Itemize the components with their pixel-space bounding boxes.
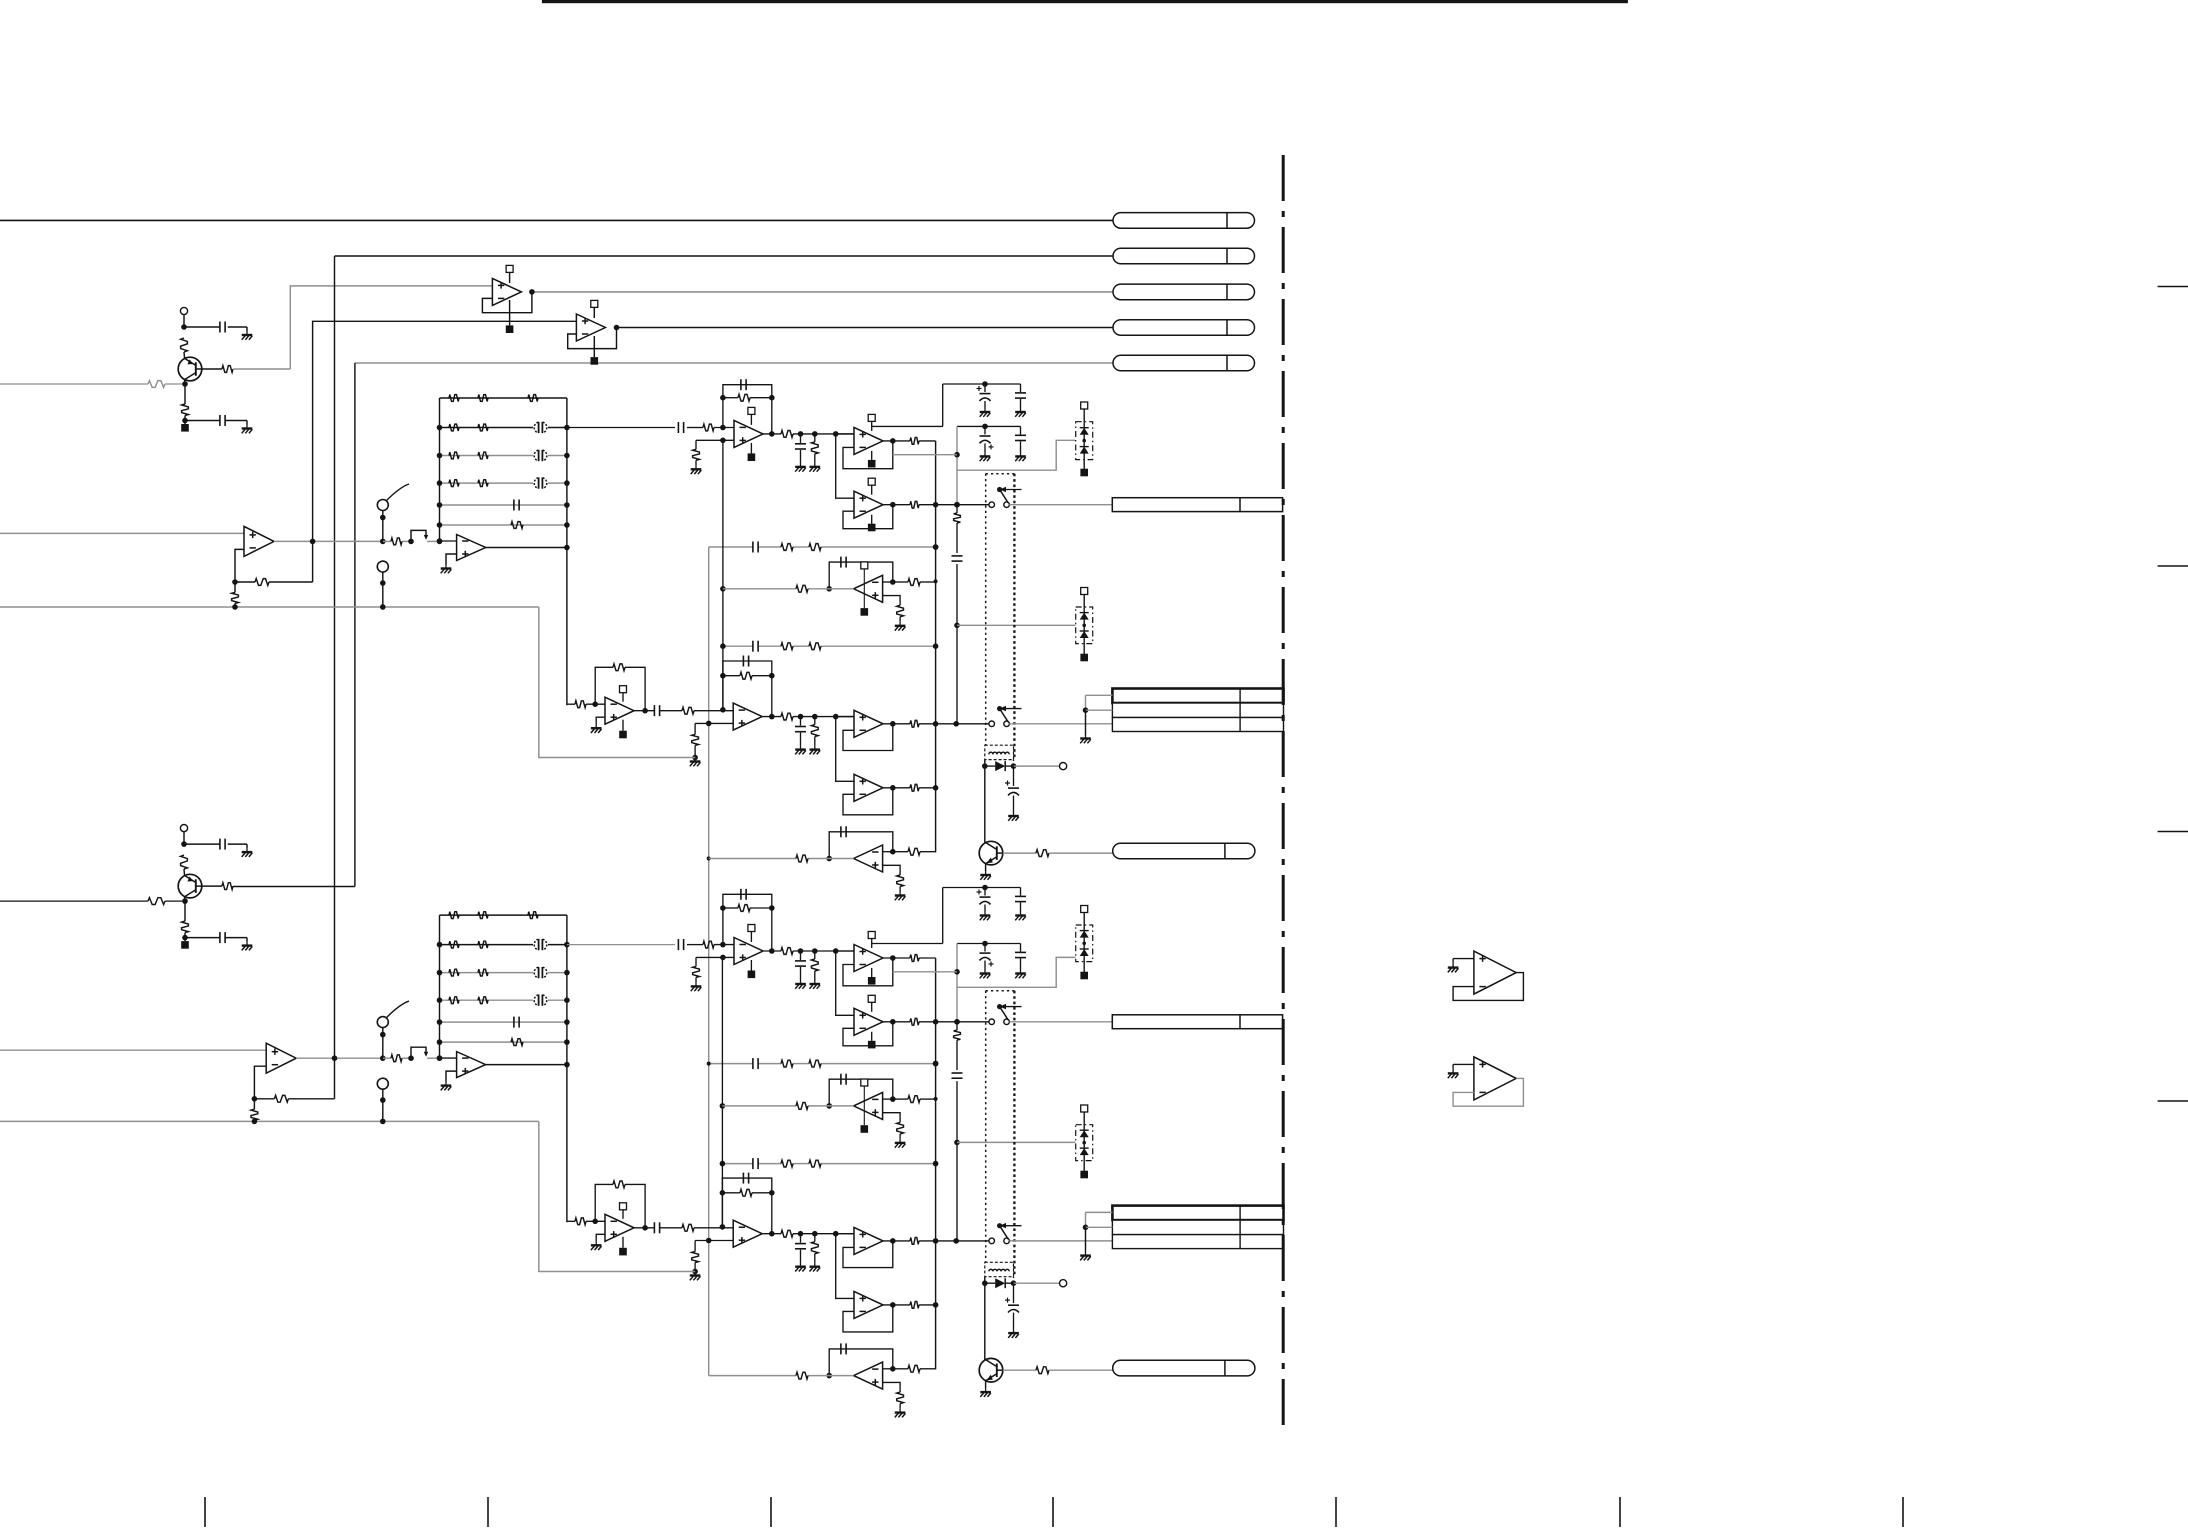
power square op-amp B bbox=[593, 336, 595, 357]
fold tick 3 bbox=[770, 1497, 772, 1527]
node pack feed ch1 bbox=[954, 623, 960, 629]
op-amp U7a bbox=[605, 697, 634, 724]
resistor T2 emitter bbox=[182, 921, 189, 933]
terminal ring T2 bbox=[180, 825, 187, 832]
wire U9 plus feed bbox=[836, 717, 854, 782]
wire U9' to vertical bbox=[919, 1304, 936, 1306]
node rail bottom ch2 bbox=[437, 1055, 443, 1061]
node x936 y1064 bbox=[933, 1061, 939, 1067]
capacitor feedback U7b' bbox=[742, 1173, 744, 1184]
filter bank ch1 right rail bbox=[566, 398, 568, 705]
node fb L opamp3 bbox=[720, 395, 726, 401]
filter ch1 row5 wire bbox=[440, 504, 567, 506]
pad above U6 bbox=[861, 562, 868, 569]
node filter ch2 L3 bbox=[437, 970, 443, 976]
node S2a on line bbox=[380, 1055, 386, 1061]
node chain21 c bbox=[833, 714, 839, 720]
node switch2 v1 bbox=[933, 1019, 939, 1025]
resistor mix B ch2 1 bbox=[781, 1160, 793, 1167]
resistor feedback opamp3' bbox=[738, 905, 750, 912]
ground T1 upper bbox=[246, 331, 248, 335]
ground T2 lower bbox=[246, 942, 248, 946]
resistor feedback U7b bbox=[740, 672, 752, 679]
wire T1 collector out bbox=[202, 368, 222, 370]
resistor filter ch2 r3a bbox=[449, 969, 459, 976]
power square U3' bbox=[750, 960, 752, 971]
wire U6 output bbox=[808, 588, 854, 590]
connector pill P5 bbox=[1113, 355, 1255, 371]
wire T2 upper cap lead bbox=[184, 843, 220, 845]
ground stub U7a' bbox=[596, 1234, 605, 1241]
fold tick 5 bbox=[1335, 1497, 1337, 1527]
wire U7a' out bbox=[634, 1227, 654, 1229]
wire preamp2 output bbox=[296, 1057, 383, 1059]
resistor U7b' plus gnd bbox=[692, 1252, 699, 1263]
diode relay ch2 bbox=[995, 1278, 1005, 1288]
op-amp preamp2 bbox=[266, 1043, 296, 1073]
pad above D1 bbox=[1081, 402, 1088, 409]
wire T2 base lead bbox=[165, 900, 185, 902]
op-amp U7b' bbox=[733, 1220, 762, 1247]
wire vertical x957 ch1 upper bbox=[956, 426, 958, 504]
node x936 y788 bbox=[933, 785, 939, 791]
node x723 ch1 y646 bbox=[720, 643, 726, 649]
terminal ring relay ch2 bbox=[1060, 1280, 1067, 1287]
node U6' minus bbox=[890, 1096, 896, 1102]
registration mark 1 bbox=[2158, 286, 2188, 288]
wire vertical x936 ch2 bbox=[935, 958, 937, 1370]
resistor U6b output bbox=[796, 855, 808, 862]
connector jack J2a bbox=[1112, 1015, 1282, 1029]
resistor U6' output bbox=[796, 1103, 808, 1110]
node stage1 minus ch2 bbox=[720, 942, 726, 948]
wire vertical x723 ch1 bbox=[722, 440, 724, 710]
wire U7a out bbox=[634, 710, 654, 712]
node x709 at ch2 mix line bbox=[707, 1062, 711, 1066]
wire T1 lower cap to gnd bbox=[225, 420, 247, 422]
node U5 out bbox=[890, 502, 896, 508]
ground U7b' bbox=[694, 1272, 696, 1276]
resistor filter ch1 r4b bbox=[478, 480, 488, 487]
wire gray bus elbow ch2 bbox=[539, 1121, 695, 1271]
pad above D3 bbox=[1081, 906, 1088, 913]
wire coil right down ch1 bbox=[1013, 760, 1015, 761]
wire preamp1 output bbox=[274, 540, 383, 542]
node mix A ch1 bbox=[933, 544, 939, 550]
power square U5 bbox=[871, 515, 873, 524]
resistor U9 out bbox=[910, 784, 919, 791]
capacitor elec relay ch2 bbox=[1008, 1304, 1019, 1306]
node U6b outjoin bbox=[826, 856, 832, 862]
wire cap group2 ch1 bbox=[957, 425, 1021, 427]
op-amp preamp1 bbox=[244, 526, 274, 556]
capacitor g1b ch1 bbox=[1020, 384, 1022, 392]
wire U5 to switch bbox=[919, 504, 989, 506]
wire lower bus ch2 bbox=[0, 1120, 539, 1122]
dash-dot boundary line bbox=[1282, 155, 1285, 1432]
terminal ring relay ch1 bbox=[1060, 763, 1067, 770]
wire U8 plus feed bbox=[836, 716, 854, 718]
wire U4 plus feed bbox=[836, 433, 854, 435]
filter bank ch1 left rail bbox=[439, 398, 441, 541]
ground U6b bbox=[899, 887, 901, 892]
node op-amp B output bbox=[614, 325, 620, 331]
wire bus line 4 bbox=[617, 327, 1114, 329]
resistor T2 collector bias bbox=[181, 855, 188, 869]
wire Q2r emitter gnd bbox=[985, 1381, 987, 1388]
resistor filter ch1 r4a bbox=[449, 480, 459, 487]
node switch22 v2 bbox=[953, 1238, 959, 1244]
diode pack D4 bbox=[1076, 1125, 1093, 1161]
op-amp U9 bbox=[854, 774, 883, 801]
terminal ring T1 bbox=[180, 307, 187, 314]
trimmer cap filter ch2 row2 bbox=[533, 938, 548, 951]
connector block ch2 row B bbox=[1112, 1220, 1283, 1235]
pad above U3 bbox=[748, 407, 755, 414]
wire vertical bus5 to Q2 collector bbox=[354, 363, 356, 887]
node fb R opamp3' bbox=[769, 905, 775, 911]
wire U8' plus feed bbox=[836, 1233, 854, 1235]
trimmer cap filter ch2 row3 bbox=[533, 966, 548, 979]
resistor preamp2 feedback bbox=[274, 1095, 288, 1102]
capacitor g2b ch2 bbox=[1020, 944, 1022, 952]
node S2b bbox=[380, 1097, 386, 1103]
resistor filter ch2 r1b bbox=[478, 912, 488, 919]
wire U3' plus bbox=[696, 956, 734, 958]
node U6b' minus bbox=[890, 1366, 896, 1372]
node x709 at op-amp6b line bbox=[707, 857, 711, 861]
transistor T1 bbox=[178, 357, 202, 381]
node U7b gnd bus bbox=[692, 755, 698, 761]
op-amp U7a' bbox=[605, 1214, 634, 1241]
connector jack J1a bbox=[1112, 498, 1282, 512]
node filter ch2 R4 bbox=[564, 997, 570, 1003]
node pot ch1 bbox=[408, 539, 414, 545]
filter ch1 row6 wire bbox=[440, 524, 567, 526]
wire U6 plus stub bbox=[883, 596, 901, 606]
filter ch2 row3 wire bbox=[440, 972, 567, 974]
node block ch1 tie bbox=[1083, 707, 1089, 713]
node U7b out bbox=[769, 714, 775, 720]
ground T1 lower bbox=[246, 425, 248, 429]
node U3' out bbox=[769, 948, 775, 954]
op-amp U5 bbox=[854, 491, 883, 518]
node filter ch2 L6 bbox=[437, 1039, 443, 1045]
wire U8' to switch bbox=[919, 1240, 989, 1242]
filter bank ch2 right rail bbox=[566, 915, 568, 1222]
capacitor elec g1 ch2 bbox=[984, 888, 986, 896]
node S2b on bus bbox=[380, 1119, 386, 1125]
resistor U6' minus bbox=[908, 1096, 920, 1103]
capacitor filter ch2 row5 bbox=[513, 1017, 515, 1028]
wire U6b output bbox=[808, 858, 854, 860]
resistor U6 plus bbox=[897, 605, 904, 617]
capacitor chain21 shunt bbox=[800, 717, 802, 726]
capacitor filter ch1 row5 bbox=[513, 500, 515, 511]
resistor U7b' out bbox=[781, 1230, 793, 1237]
node U6b minus bbox=[890, 849, 896, 855]
wire U6b' output bbox=[808, 1375, 854, 1377]
resistor U5 out bbox=[910, 501, 919, 508]
capacitor T2 lower bbox=[219, 932, 221, 943]
node coil left ch1 bbox=[982, 763, 988, 769]
resistor U8' out bbox=[910, 1238, 919, 1245]
wire F2 output bbox=[486, 1064, 567, 1066]
resistor Q2r base bbox=[1036, 1367, 1049, 1374]
resistor U7a out bbox=[682, 707, 694, 714]
wire relay terminal ch2 bbox=[1014, 1282, 1060, 1284]
wire mute ch2 bbox=[893, 971, 957, 973]
node x936 y1099 bbox=[934, 1097, 938, 1101]
op-amp U5' bbox=[854, 1008, 883, 1035]
resistor U3 plus gnd bbox=[693, 449, 700, 460]
resistor filter ch2 r1c bbox=[528, 912, 538, 919]
feedback cap wire U7b bbox=[723, 661, 772, 717]
feedback wire U5 bbox=[843, 505, 893, 529]
resistor filter ch2 r2a bbox=[449, 941, 459, 948]
node preamp1 fb bbox=[232, 579, 238, 585]
wire mix line A ch1 bbox=[709, 546, 753, 548]
resistor mix A ch1 1 bbox=[781, 544, 793, 551]
fold tick 7 bbox=[1902, 1497, 1904, 1527]
wire feedback R U7b bbox=[723, 675, 740, 677]
feedback wire S1 bbox=[1453, 973, 1523, 1001]
node chain22 b bbox=[812, 1231, 818, 1237]
node U8' out bbox=[890, 1238, 896, 1244]
pad above D4 bbox=[1081, 1105, 1088, 1112]
node U7b' out bbox=[769, 1231, 775, 1237]
wire block ch2 gnd bbox=[1085, 1227, 1087, 1251]
capacitor chain22 shunt bbox=[800, 1234, 802, 1243]
filter ch2 row4 wire bbox=[440, 999, 567, 1001]
node filter ch1 L4 bbox=[437, 480, 443, 486]
node U7b' plus-vert bbox=[706, 1238, 712, 1244]
wire lower bus ch1 bbox=[0, 606, 539, 608]
node capg2 ch1 bbox=[982, 424, 988, 430]
resistor U6b' output bbox=[796, 1372, 808, 1379]
capacitor g2b ch1 bbox=[1020, 426, 1022, 434]
node S1a on line bbox=[380, 539, 386, 545]
power square op-amp A bbox=[509, 300, 511, 325]
wire U7b' plus bbox=[695, 1240, 733, 1242]
resistor U7a' out bbox=[682, 1224, 694, 1231]
op-amp U6b bbox=[854, 845, 883, 872]
resistor Q1r base bbox=[1036, 850, 1049, 857]
capacitor T1 lower bbox=[219, 415, 221, 426]
capacitor feedback U6 bbox=[840, 557, 842, 568]
wire U6b' plus stub bbox=[883, 1382, 901, 1392]
wire switch ch1 row2 out bbox=[1009, 723, 1112, 725]
switch arm S1a bbox=[387, 484, 410, 501]
capacitor x957 ch1 bbox=[952, 555, 963, 557]
wire T2 base input bbox=[0, 900, 148, 902]
node x723 ch2 y1164 bbox=[720, 1161, 726, 1167]
registration mark 4 bbox=[2158, 1100, 2188, 1102]
node capg1 ch2 bbox=[982, 885, 988, 891]
node T2 lower bbox=[182, 935, 188, 941]
wire U6' plus stub bbox=[883, 1113, 901, 1123]
node switch1 v2 bbox=[954, 502, 960, 508]
wire stage1 input ch1 bbox=[567, 427, 675, 429]
fold tick 6 bbox=[1619, 1497, 1621, 1527]
relay switch ch1 row2 bbox=[989, 721, 995, 727]
feedback wire U8' bbox=[843, 1241, 893, 1268]
wire U7b plus bbox=[695, 722, 733, 724]
node filter ch2 R2 bbox=[564, 942, 570, 948]
power square U6 bbox=[861, 608, 869, 616]
ground U6 bbox=[899, 617, 901, 622]
node op-amp A output bbox=[529, 289, 535, 295]
resistor filter ch1 r3a bbox=[449, 452, 459, 459]
registration mark 3 bbox=[2158, 831, 2188, 833]
ground U7b bbox=[694, 758, 696, 762]
filter ch1 bottom row wire bbox=[440, 540, 457, 542]
connector pill Q1 bbox=[1113, 843, 1255, 859]
wire T2 collector to riser bbox=[233, 886, 355, 888]
resistor T2 base bbox=[148, 898, 165, 905]
node filter ch1 R3 bbox=[564, 453, 570, 459]
power square U6' bbox=[861, 1125, 869, 1133]
feedback wire opamp3 bbox=[723, 385, 772, 434]
resistor T1 base bbox=[148, 381, 165, 388]
resistor U9' out bbox=[910, 1302, 919, 1309]
resistor U6' plus bbox=[897, 1122, 904, 1134]
power square U5' bbox=[871, 1032, 873, 1041]
node mix A ch2 bbox=[933, 1061, 939, 1067]
wire T2 lower cap lead bbox=[185, 937, 220, 939]
resistor mix B ch2 2 bbox=[809, 1160, 821, 1167]
resistor stage2 input ch1 bbox=[575, 701, 586, 708]
wire relay cap gnd ch1 bbox=[1013, 796, 1015, 813]
pad above D2 bbox=[1081, 588, 1088, 595]
feedback wire U9' bbox=[843, 1305, 893, 1332]
diode pack D2 bbox=[1076, 607, 1093, 644]
wire vertical x723 ch2 bbox=[721, 958, 723, 1228]
node filter ch1 L5 bbox=[437, 502, 443, 508]
power square T2 bbox=[184, 938, 186, 942]
ground stub F2 bbox=[446, 1071, 457, 1082]
wire mix line A ch2 bbox=[709, 1063, 753, 1065]
capacitor stage1 input C21 bbox=[677, 939, 679, 950]
diode pack D3 bbox=[1076, 925, 1093, 962]
terminal ring S2b bbox=[377, 1078, 388, 1089]
registration mark 2 bbox=[2158, 565, 2188, 567]
resistor T1 collector bbox=[222, 366, 233, 373]
resistor U3' plus gnd bbox=[693, 966, 700, 977]
resistor T1 collector bias bbox=[181, 338, 188, 352]
node x936 y1305 bbox=[933, 1302, 939, 1308]
wire relay terminal ch1 bbox=[1014, 765, 1060, 767]
node x936 y547 bbox=[933, 544, 939, 550]
wire U4 to vertical bbox=[919, 440, 936, 442]
pad above U6' bbox=[861, 1079, 868, 1086]
wire T2 lower cap to gnd bbox=[225, 937, 247, 939]
node switch1 v1 bbox=[933, 502, 939, 508]
node filter ch2 bottom bbox=[437, 1055, 443, 1061]
wire U7b' out bbox=[762, 1233, 781, 1235]
resistor filter ch2 r1a bbox=[449, 912, 459, 919]
feedback cap wire U6 bbox=[829, 562, 893, 589]
wire T1 upper cap lead bbox=[184, 326, 220, 328]
node U3 out bbox=[769, 431, 775, 437]
trimmer cap filter ch1 row3 bbox=[533, 449, 548, 462]
wire mute elbow ch2 bbox=[957, 957, 1076, 987]
resistor U6b plus bbox=[897, 875, 904, 887]
wire Q1r base bbox=[1003, 852, 1036, 854]
power square D3 bbox=[1080, 972, 1088, 980]
ground U3 plus bbox=[695, 465, 697, 469]
node U7a' out bbox=[642, 1225, 648, 1231]
wire feedback R U7b' bbox=[722, 1192, 740, 1194]
wire Q1r base to pill bbox=[1049, 852, 1113, 854]
resistor U6b' plus bbox=[897, 1392, 904, 1404]
power square U7a' bbox=[622, 1237, 624, 1248]
resistor chain22 shunt bbox=[811, 1242, 818, 1254]
resistor filter ch1 r2b bbox=[478, 424, 488, 431]
wire U9' plus feed bbox=[836, 1234, 854, 1299]
fold tick 4 bbox=[1052, 1497, 1054, 1527]
node fb L opamp3' bbox=[720, 905, 726, 911]
feedback U7a' bbox=[595, 1184, 613, 1221]
wire T1 collector to riser bbox=[233, 368, 290, 370]
node U6 minus bbox=[890, 579, 896, 585]
wire U3' out bbox=[763, 950, 781, 952]
node U9' out bbox=[890, 1302, 896, 1308]
node x723 ch2 y1106 bbox=[720, 1103, 726, 1109]
node filter ch2 R6 bbox=[564, 1039, 570, 1045]
wire U4' plus feed bbox=[836, 950, 854, 952]
node S1b on bus bbox=[380, 604, 386, 610]
node preamp1 output bbox=[310, 539, 316, 545]
node filter ch1 L6 bbox=[437, 522, 443, 528]
wire cap-link vertical ch2 bbox=[942, 888, 944, 944]
wire Q2r base bbox=[1003, 1369, 1036, 1371]
resistor U6b minus bbox=[908, 848, 920, 855]
connector block ch1 row A bbox=[1112, 689, 1283, 704]
node U9 out bbox=[890, 785, 896, 791]
resistor x957 ch1 bbox=[954, 513, 961, 523]
node stage2 fb ch2 bbox=[592, 1219, 598, 1225]
wire cap-link vertical ch1 bbox=[942, 384, 944, 426]
wire U6' minus bbox=[883, 1098, 893, 1100]
op-amp U3 bbox=[734, 420, 763, 447]
wire U6b' minus bbox=[883, 1368, 893, 1370]
filter bank ch2 left rail bbox=[439, 915, 441, 1058]
terminal ring S2a bbox=[377, 1017, 388, 1028]
wire preamp2 + input bbox=[0, 1049, 266, 1051]
wire gray bus elbow ch1 bbox=[539, 607, 695, 758]
wire Q1r emitter gnd bbox=[985, 864, 987, 871]
wire preamp1 fb lead bbox=[235, 581, 255, 583]
node chain2 a bbox=[798, 948, 804, 954]
pad above U7a bbox=[620, 686, 627, 693]
terminal ring S1a bbox=[377, 500, 388, 511]
node filter ch1 L2 bbox=[437, 425, 443, 431]
wire relay cap gnd ch2 bbox=[1013, 1313, 1015, 1330]
wire bus line 1 bbox=[0, 219, 1113, 221]
pad above U4' bbox=[868, 932, 875, 939]
resistor mix A ch1 2 bbox=[809, 544, 821, 551]
node S1a bbox=[380, 515, 386, 521]
diode pack D1 bbox=[1076, 422, 1093, 460]
wire long vertical x709 bbox=[708, 547, 710, 1376]
power square U4' bbox=[871, 968, 873, 977]
ground U6b' bbox=[899, 1404, 901, 1409]
fold tick 2 bbox=[487, 1497, 489, 1527]
op-amp U6b' bbox=[854, 1362, 883, 1389]
node x936 y581 bbox=[934, 579, 938, 583]
node fbR U7b bbox=[769, 673, 775, 679]
